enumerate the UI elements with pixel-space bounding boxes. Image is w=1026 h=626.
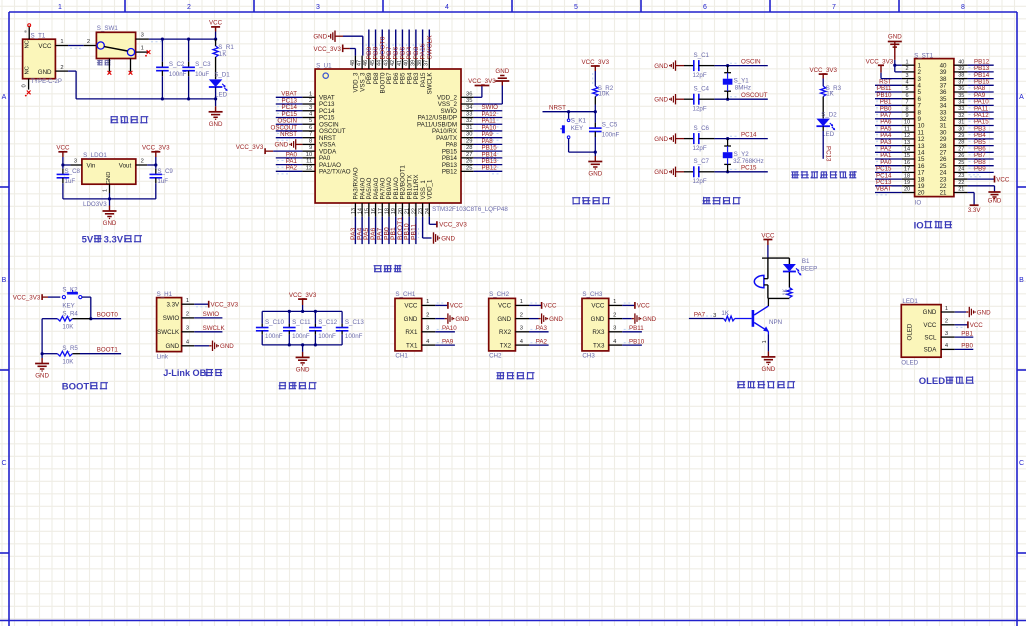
- wire net PB10: [622, 344, 642, 346]
- svg-text:GND: GND: [762, 366, 776, 373]
- svg-text:12pF: 12pF: [693, 106, 707, 113]
- svg-text:29: 29: [958, 133, 964, 139]
- U1 bottom pin 16: [375, 203, 377, 217]
- S_CH2 pin 1: [515, 304, 529, 306]
- svg-text:7: 7: [905, 100, 908, 106]
- power port VCC S_CH1: [435, 304, 447, 306]
- wire net OSCOUT: [714, 98, 767, 100]
- svg-text:RX2: RX2: [499, 329, 512, 336]
- H1 pin 3: [182, 331, 195, 333]
- wire net PB12: [968, 64, 994, 66]
- svg-text:GND: GND: [38, 69, 52, 76]
- svg-text:S_LDO1: S_LDO1: [83, 152, 107, 159]
- H1 pin 1: [182, 303, 195, 305]
- svg-text:10K: 10K: [62, 358, 74, 365]
- wire net PB13: [968, 71, 994, 73]
- svg-text:2: 2: [945, 319, 948, 325]
- svg-text:21: 21: [958, 187, 964, 193]
- svg-text:PA7: PA7: [694, 311, 706, 318]
- U1 left pin 11: [302, 164, 315, 166]
- svg-text:PB9: PB9: [974, 166, 986, 173]
- U1 bottom pin 23: [422, 203, 424, 217]
- LED D2: [822, 97, 824, 119]
- svg-text:1K: 1K: [826, 90, 834, 97]
- wire net BOOT1 (bottom): [401, 217, 403, 244]
- connector T1 (TYPE-C-2P): [23, 39, 56, 78]
- svg-text:9: 9: [309, 145, 312, 151]
- svg-text:B: B: [2, 277, 7, 284]
- svg-text:33: 33: [466, 111, 472, 117]
- JT1 right pin 22: [954, 185, 968, 187]
- wire net SWIO: [474, 110, 503, 112]
- svg-text:S_C4: S_C4: [694, 86, 710, 93]
- resistor R2 10K: [593, 86, 598, 96]
- svg-text:24: 24: [425, 208, 431, 214]
- svg-text:1: 1: [945, 306, 948, 312]
- svg-text:S_R5: S_R5: [62, 345, 78, 352]
- svg-text:TYPE-C-2P: TYPE-C-2P: [31, 79, 62, 85]
- U1 top pin 47: [361, 56, 363, 69]
- power port VCC S_CH3: [622, 304, 634, 306]
- svg-text:SWCLK: SWCLK: [426, 35, 433, 60]
- wire net OSCIN: [276, 123, 303, 125]
- svg-text:17: 17: [904, 167, 910, 173]
- svg-text:GND: GND: [441, 235, 455, 242]
- wire alarm parallel top rail: [762, 257, 768, 259]
- svg-text:BOOT0: BOOT0: [97, 311, 119, 318]
- JT1 left pin 5: [902, 91, 915, 93]
- capacitor C5 100nF: [594, 112, 596, 123]
- svg-text:VCC_3V3: VCC_3V3: [211, 302, 239, 309]
- wire net NRST: [543, 111, 596, 113]
- svg-text:10K: 10K: [599, 90, 611, 97]
- svg-text:PB11: PB11: [410, 224, 417, 240]
- JT1 left pin 7: [902, 104, 915, 106]
- U1 top pin 46: [368, 56, 370, 69]
- wire net SWCLK (top): [428, 30, 430, 56]
- JT1 left pin 20: [902, 192, 915, 194]
- S_CH2 pin 3: [515, 331, 529, 333]
- JT1 left pin 14: [902, 151, 915, 153]
- power port VCC JT1 pin23: [968, 178, 995, 180]
- svg-text:S_C13: S_C13: [345, 319, 364, 326]
- JT1 left pin 2: [902, 71, 915, 73]
- wire net PB10: [875, 98, 902, 100]
- wire net PB9 (top): [368, 30, 370, 56]
- U1 left pin 3: [302, 110, 315, 112]
- svg-text:3: 3: [713, 313, 716, 319]
- svg-text:VCC: VCC: [970, 322, 984, 329]
- svg-text:12pF: 12pF: [693, 178, 707, 185]
- svg-text:25: 25: [466, 165, 472, 171]
- U1 left pin 12: [302, 170, 315, 172]
- svg-text:3: 3: [74, 159, 77, 165]
- wire T1 GND down and along bottom: [55, 70, 68, 72]
- svg-text:5: 5: [905, 86, 908, 92]
- svg-text:S_C1: S_C1: [694, 52, 710, 59]
- wire net PA9: [474, 137, 503, 139]
- svg-text:GND: GND: [549, 316, 563, 323]
- svg-text:S_R1: S_R1: [218, 44, 234, 51]
- svg-text:GND: GND: [220, 343, 234, 350]
- wire BOOT pulldown vertical: [41, 319, 43, 354]
- svg-text:PA2/TX/AO: PA2/TX/AO: [319, 169, 351, 176]
- resistor R1 1K: [215, 39, 217, 46]
- wire net SWCLK: [194, 331, 222, 333]
- JT1 right pin 26: [954, 158, 968, 160]
- svg-text:20: 20: [918, 190, 925, 197]
- svg-text:15: 15: [904, 153, 910, 159]
- svg-text:IO: IO: [915, 199, 922, 206]
- U1 right pin 31: [461, 130, 474, 132]
- U1 top pin 43: [388, 56, 390, 69]
- S_CH1 pin 2: [422, 318, 436, 320]
- crystal Y1 8MHz: [726, 64, 729, 67]
- svg-text:21: 21: [405, 208, 411, 214]
- JT1 right pin 31: [954, 125, 968, 127]
- U1 right pin 28: [461, 150, 474, 152]
- wire net PB6 (top): [395, 30, 397, 56]
- wire net BOOT0 (top): [381, 30, 383, 56]
- wire net PB0: [955, 348, 974, 350]
- capacitor S_C4 12pF: [684, 98, 694, 100]
- svg-text:6: 6: [703, 4, 707, 11]
- svg-text:40: 40: [404, 60, 410, 66]
- wire net PB4 (top): [408, 30, 410, 56]
- wire net PA2: [276, 170, 303, 172]
- svg-text:11: 11: [306, 159, 312, 165]
- svg-text:12: 12: [904, 133, 910, 139]
- wire net OSCIN: [714, 65, 767, 67]
- SW1 bottom pins no-connect: [108, 59, 110, 72]
- wire net PA2: [875, 151, 902, 153]
- svg-text:37: 37: [424, 60, 430, 66]
- svg-text:GND: GND: [654, 136, 668, 143]
- wire net PB3 (top): [415, 30, 417, 56]
- svg-text:S_SW1: S_SW1: [97, 25, 119, 32]
- svg-text:VCC: VCC: [38, 43, 52, 50]
- svg-text:PB12: PB12: [442, 169, 458, 176]
- svg-text:GND: GND: [988, 198, 1002, 205]
- wire net PA5: [875, 131, 902, 133]
- svg-text:OLED: OLED: [901, 359, 918, 366]
- svg-text:47: 47: [357, 60, 363, 66]
- svg-text:GND: GND: [495, 68, 509, 75]
- svg-text:S_D2: S_D2: [821, 112, 837, 119]
- U1 left pin 1: [302, 96, 315, 98]
- svg-text:VCC: VCC: [209, 20, 223, 27]
- svg-text:3: 3: [316, 4, 320, 11]
- svg-text:8: 8: [309, 138, 312, 144]
- power port VCC_3V3 LDO out: [151, 151, 160, 153]
- svg-text:S_ST1: S_ST1: [914, 52, 933, 59]
- capacitor S_C12 100nF: [314, 311, 316, 323]
- ground GND at U1 VSS_2 pin35: [474, 103, 503, 105]
- wire net PB15: [474, 150, 503, 152]
- ground GND OLED pin1: [955, 311, 967, 313]
- JT1 left pin 1: [902, 64, 915, 66]
- svg-text:7: 7: [832, 4, 836, 11]
- svg-text:16: 16: [904, 160, 910, 166]
- resistor R3 1K: [821, 86, 826, 96]
- svg-text:1: 1: [141, 46, 144, 52]
- U1 top pin 48: [354, 56, 356, 69]
- svg-text:12: 12: [306, 165, 312, 171]
- wire K1 bottom loop: [568, 139, 570, 153]
- H1 pin 4: [182, 345, 195, 347]
- wire net NRST: [276, 137, 303, 139]
- U1 left pin 2: [302, 103, 315, 105]
- svg-text:2: 2: [905, 66, 908, 72]
- svg-text:GND: GND: [497, 316, 511, 323]
- JT1 right pin 37: [954, 84, 968, 86]
- ground GND alarm: [767, 351, 769, 357]
- svg-text:VCC_3V3: VCC_3V3: [142, 145, 170, 152]
- U1 top pin 44: [381, 56, 383, 69]
- svg-text:4: 4: [445, 4, 449, 11]
- JT1 left pin 12: [902, 138, 915, 140]
- svg-text:S_C12: S_C12: [318, 319, 337, 326]
- svg-text:1: 1: [103, 189, 109, 192]
- svg-text:20: 20: [398, 208, 404, 214]
- svg-text:39: 39: [410, 60, 416, 66]
- wire net PA3: [529, 331, 549, 333]
- svg-text:VCC: VCC: [498, 303, 512, 310]
- svg-text:3: 3: [945, 331, 948, 337]
- svg-text:TX1: TX1: [406, 342, 418, 349]
- svg-text:NRST: NRST: [280, 131, 297, 138]
- LED D3 in alarm branch: [788, 258, 790, 264]
- U1 top pin 45: [375, 56, 377, 69]
- svg-text:4: 4: [905, 80, 908, 86]
- JT1 left pin 3: [902, 78, 915, 80]
- U1 bottom pin 13: [354, 203, 356, 217]
- wire net PC15: [714, 171, 767, 173]
- svg-text:36: 36: [958, 86, 964, 92]
- svg-text:OSCIN: OSCIN: [741, 58, 761, 65]
- svg-text:SCL: SCL: [924, 334, 937, 341]
- LED1 pin 2: [941, 324, 955, 326]
- U1 top pin 40: [408, 56, 410, 69]
- wire net PB10 (bottom): [408, 217, 410, 244]
- svg-text:S_C7: S_C7: [694, 158, 710, 165]
- svg-text:48: 48: [350, 60, 356, 66]
- svg-text:3: 3: [426, 326, 429, 332]
- svg-text:1uF: 1uF: [157, 178, 168, 185]
- U1 right pin 25: [461, 170, 474, 172]
- U1 left pin 8: [302, 143, 315, 145]
- svg-text:Vin: Vin: [87, 162, 96, 169]
- svg-text:VDD_1: VDD_1: [427, 179, 434, 200]
- svg-text:1: 1: [58, 4, 62, 11]
- U1 left pin 4: [302, 116, 315, 118]
- svg-text:3: 3: [520, 326, 523, 332]
- wire net PB3: [968, 131, 994, 133]
- wire net PC14: [875, 178, 902, 180]
- capacitor S_C11 100nF: [288, 311, 290, 323]
- svg-text:SWIO: SWIO: [203, 311, 220, 318]
- svg-text:22: 22: [958, 180, 964, 186]
- svg-text:2: 2: [309, 98, 312, 104]
- svg-text:2: 2: [187, 4, 191, 11]
- S_CH2 pin 4: [515, 344, 529, 346]
- U1 left pin 10: [302, 157, 315, 159]
- wire filter top rail: [262, 310, 342, 312]
- connector S_CH2: [489, 298, 516, 351]
- LED D1: [215, 57, 217, 79]
- svg-text:1K: 1K: [219, 51, 227, 58]
- svg-text:GND: GND: [654, 97, 668, 104]
- svg-text:VCC: VCC: [637, 303, 651, 310]
- svg-text:32.768KHz: 32.768KHz: [733, 158, 764, 165]
- svg-text:34: 34: [958, 100, 964, 106]
- svg-text:CH1: CH1: [395, 353, 408, 360]
- svg-text:39: 39: [958, 66, 964, 72]
- svg-text:GND: GND: [977, 309, 991, 316]
- svg-text:S_C10: S_C10: [265, 319, 284, 326]
- wire net PA15: [968, 125, 994, 127]
- svg-text:IO: IO: [914, 221, 924, 232]
- svg-text:16: 16: [371, 208, 377, 214]
- capacitor C8 1uF: [62, 165, 64, 169]
- svg-text:NRST: NRST: [549, 105, 566, 112]
- wire net PC13 (vertical): [822, 126, 824, 131]
- svg-text:3: 3: [613, 326, 616, 332]
- title 滤波电路: [279, 382, 286, 384]
- svg-text:VCC_3V3: VCC_3V3: [468, 78, 496, 85]
- power port VCC OLED pin2: [955, 324, 968, 326]
- svg-text:RX3: RX3: [592, 329, 605, 336]
- wire net PB12: [474, 170, 503, 172]
- svg-text:PB1: PB1: [961, 330, 973, 337]
- op-amp U1 main chip STM32F103C8T6_LQFP48 body: [315, 69, 461, 203]
- U1 bottom pin 14: [361, 203, 363, 217]
- wire net PA4: [875, 138, 902, 140]
- svg-text:28: 28: [466, 145, 472, 151]
- svg-text:12pF: 12pF: [693, 145, 707, 152]
- power port VCC S_CH2: [529, 304, 541, 306]
- svg-text:TX3: TX3: [593, 342, 605, 349]
- wire net PA12: [474, 116, 503, 118]
- wire net PC13: [875, 185, 902, 187]
- svg-text:RX1: RX1: [405, 329, 418, 336]
- wire net PB15: [968, 84, 994, 86]
- svg-text:S_C8: S_C8: [65, 168, 81, 175]
- svg-text:30: 30: [466, 132, 472, 138]
- svg-text:32: 32: [958, 113, 964, 119]
- svg-text:S_D1: S_D1: [214, 72, 230, 79]
- svg-text:S_H1: S_H1: [157, 291, 173, 298]
- wire net PA4 (bottom): [361, 217, 363, 244]
- JT1 right pin 33: [954, 111, 968, 113]
- svg-text:SWCLK: SWCLK: [427, 72, 434, 95]
- JT1 left pin 11: [902, 131, 915, 133]
- svg-text:6: 6: [309, 125, 312, 131]
- svg-text:18: 18: [904, 173, 910, 179]
- svg-text:KEY: KEY: [62, 302, 74, 309]
- svg-text:8: 8: [961, 4, 965, 11]
- JT1 left pin 4: [902, 84, 915, 86]
- svg-text:STM32F103C8T6_LQFP48: STM32F103C8T6_LQFP48: [432, 206, 508, 213]
- wire emitter to ground: [767, 332, 769, 335]
- svg-text:SWCLK: SWCLK: [203, 325, 226, 332]
- capacitor C2 100nF: [161, 39, 163, 62]
- ground GND S_CH1: [435, 318, 445, 320]
- svg-text:35: 35: [466, 98, 472, 104]
- svg-text:1K: 1K: [721, 310, 729, 317]
- svg-text:NC: NC: [25, 66, 31, 74]
- svg-text:10: 10: [306, 152, 312, 158]
- svg-text:2: 2: [186, 312, 189, 318]
- SW1 pin 3 wire to VCC rail: [136, 38, 149, 40]
- U1 bottom pin 22: [415, 203, 417, 217]
- svg-text:GND: GND: [591, 316, 605, 323]
- JT1 right pin 21: [954, 192, 968, 194]
- svg-text:44: 44: [377, 60, 383, 66]
- svg-text:14: 14: [358, 208, 364, 214]
- U1 right pin 30: [461, 137, 474, 139]
- wire net PB11: [622, 331, 642, 333]
- wire net PA10: [435, 331, 455, 333]
- wire K2 to BOOT0: [82, 296, 91, 298]
- U1 right pin 34: [461, 110, 474, 112]
- svg-text:3: 3: [905, 73, 908, 79]
- svg-text:PC14: PC14: [741, 131, 757, 138]
- title 复位电路: [572, 197, 580, 199]
- svg-text:31: 31: [958, 120, 964, 126]
- svg-text:GND: GND: [888, 34, 902, 41]
- svg-text:GND: GND: [274, 142, 288, 149]
- svg-text:27: 27: [958, 146, 964, 152]
- svg-text:GND: GND: [588, 171, 602, 178]
- svg-text:5: 5: [309, 118, 312, 124]
- wire net VBAT: [276, 96, 303, 98]
- svg-text:40: 40: [958, 59, 964, 65]
- wire net PB13: [474, 164, 503, 166]
- svg-text:6: 6: [905, 93, 908, 99]
- svg-text:VCC: VCC: [543, 303, 557, 310]
- wire net PA2: [529, 344, 549, 346]
- svg-text:38: 38: [417, 60, 423, 66]
- wire Vout pin 2: [136, 164, 147, 166]
- U1 right pin 27: [461, 157, 474, 159]
- T1 bottom pin 0 with no-connect: [28, 79, 30, 90]
- JT1 right pin 38: [954, 78, 968, 80]
- wire net PB7: [968, 158, 994, 160]
- U1 right pin 26: [461, 164, 474, 166]
- svg-text:3: 3: [186, 326, 189, 332]
- svg-text:2: 2: [60, 65, 63, 71]
- svg-text:B: B: [1019, 277, 1024, 284]
- wire net PA12: [968, 118, 994, 120]
- wire net PA3 (bottom): [354, 217, 356, 244]
- svg-text:1: 1: [905, 59, 908, 65]
- svg-text:PA3: PA3: [536, 325, 548, 332]
- svg-text:GND: GND: [654, 63, 668, 70]
- U1 bottom pin 24: [428, 203, 430, 217]
- svg-text:PA10: PA10: [442, 325, 457, 332]
- svg-text:VCC: VCC: [404, 303, 418, 310]
- svg-text:1: 1: [762, 340, 768, 343]
- svg-text:SWCLK: SWCLK: [157, 329, 180, 336]
- svg-text:PA2: PA2: [286, 165, 298, 172]
- svg-text:OSCOUT: OSCOUT: [741, 92, 768, 99]
- svg-text:2: 2: [87, 39, 90, 45]
- svg-text:100nF: 100nF: [602, 132, 620, 139]
- svg-text:11: 11: [904, 126, 910, 132]
- svg-text:LED1: LED1: [902, 298, 918, 305]
- wire T1 VCC to SW1 pin2: [55, 45, 68, 47]
